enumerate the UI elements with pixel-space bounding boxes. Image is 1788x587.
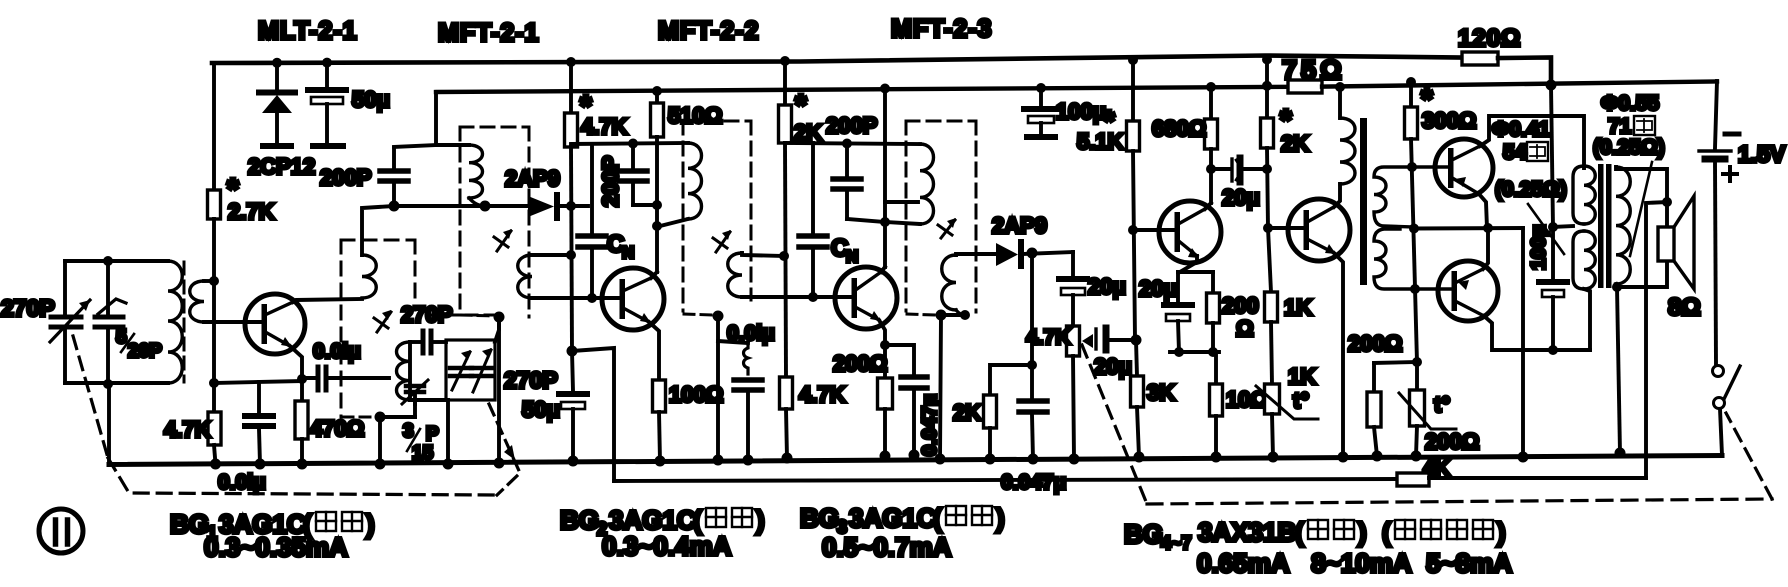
thermistor 200Ω t° [1415, 362, 1419, 390]
resistor 300Ω [1409, 82, 1413, 107]
dashed osc enclosure left [340, 240, 343, 417]
svg-text:(0.25Ω): (0.25Ω) [1495, 178, 1567, 201]
svg-text:MFT-2-2: MFT-2-2 [658, 17, 759, 45]
node secondary bottom [1612, 282, 1622, 292]
node diode out on 4.7K line [566, 201, 576, 211]
inductor output primary winding 2 [1573, 231, 1584, 289]
dashed osc to trimmer link [428, 314, 497, 317]
svg-text:20μ: 20μ [1094, 354, 1132, 379]
node 200Ω bottom [1208, 347, 1218, 357]
svg-text:BG: BG [1124, 519, 1163, 549]
dashed gang link from tuning capacitor [73, 336, 108, 458]
node secondary-2 top on bias line [779, 251, 789, 261]
node 200P IF2 top [628, 139, 638, 149]
capacitor 200P (IF3 tank) [845, 143, 849, 176]
inductor output secondary [1616, 167, 1630, 284]
wire IF2 supply wire [571, 143, 688, 144]
box MFT-2-2 dashed [683, 120, 751, 123]
svg-text:2.7K: 2.7K [228, 199, 275, 224]
node rail dot thermistor 1K [1268, 452, 1279, 463]
resistor 2K (BG5 bias) [1261, 118, 1274, 148]
svg-text:N: N [846, 247, 858, 266]
wire output primary bottom to BG7 collector line [1584, 289, 1590, 350]
wire branch to 0.01μ [718, 341, 748, 343]
diode 2CP12 [275, 63, 279, 90]
resistor 100Ω [653, 380, 666, 412]
wire tank bottom to ground rail [107, 384, 111, 464]
resistor R 2.7K [208, 190, 221, 219]
node tank bottom dot [103, 379, 113, 389]
svg-text:0.3~0.4mA: 0.3~0.4mA [602, 531, 732, 561]
resistor 4.7K (AGC series) [1067, 326, 1080, 356]
dashed BG4~7 block bottom [1147, 499, 1772, 504]
wire center tap to output primary [1553, 226, 1573, 227]
node rail dot 0.01μ [743, 455, 754, 466]
svg-text:200: 200 [1222, 293, 1259, 318]
inductor output primary winding 1 [1573, 166, 1584, 224]
wire AGC node to feedback drop [572, 348, 614, 481]
capacitor 20μ (BG4 bypass) [1176, 272, 1180, 302]
svg-text:200Ω: 200Ω [1348, 331, 1402, 356]
capacitor 50μ (top) [325, 63, 329, 87]
node rail dot 2K [985, 454, 996, 465]
wire feedback line 4K [614, 479, 1397, 481]
wire secondary top to speaker [1616, 167, 1667, 228]
wire BG2 emitter down [649, 322, 659, 380]
svg-text:1K: 1K [1284, 295, 1312, 320]
dashed gang diagonal to trimmer [489, 404, 520, 495]
resistor R 4.7K (BG1) [212, 383, 216, 412]
svg-text:BG: BG [800, 503, 839, 533]
svg-text:3AX31B: 3AX31B [1198, 517, 1296, 547]
wire emitter bus [1414, 226, 1523, 230]
wire osc tank ground x=448 [446, 400, 450, 464]
svg-text:470Ω: 470Ω [310, 416, 364, 441]
wire second rail feed to MFT-2-1 primary [436, 92, 469, 145]
node top rail dot 2CP12 [272, 58, 282, 68]
svg-text:3: 3 [403, 421, 414, 442]
inductor MFT-2-3 primary [920, 144, 934, 224]
wire BG7 emitter up to bus [1483, 228, 1488, 269]
node rail dot 50μ AGC [568, 456, 579, 467]
node rail dot emitter bus [1518, 452, 1529, 463]
wire MFT-2-3 rail feed [883, 88, 887, 267]
resistor 3K [1136, 340, 1137, 376]
inductor osc coil main [408, 342, 412, 400]
svg-text:Φ0.41: Φ0.41 [1492, 118, 1550, 141]
resistor 200Ω (BG4) [1211, 272, 1215, 293]
svg-text:0.3~0.35mA: 0.3~0.35mA [204, 532, 348, 562]
capacitor CN (2) [811, 143, 815, 233]
wire secondary-3 bottom link [941, 313, 965, 317]
wire BG5 base [1268, 226, 1303, 230]
wire base line down to 1K [1268, 228, 1271, 292]
wire BG5 base feed line [1265, 59, 1269, 118]
svg-text:MFT-2-3: MFT-2-3 [891, 15, 992, 43]
svg-text:200Ω: 200Ω [1425, 429, 1479, 454]
wire emitter resistor bus [1170, 350, 1219, 354]
node padder ground node [375, 412, 386, 423]
node junction base coil top [209, 276, 219, 286]
wire BG4 emitter bus [1178, 270, 1213, 274]
svg-text:t°: t° [1434, 392, 1450, 417]
dashed BG1 block boundary bottom [108, 458, 497, 495]
wire secondary ground drop [1617, 287, 1620, 453]
wire box to ground drop node [495, 317, 499, 342]
resistor 1K (BG5 bias low) [1265, 292, 1278, 322]
capacitor 0.047μ (BG3 emitter) [885, 345, 914, 374]
resistor 120Ω in top rail [1462, 52, 1498, 65]
wire 5.1K line down [1133, 151, 1135, 340]
capacitor padder 3/15P [413, 400, 417, 404]
inductor MFT-2-1 secondary [518, 255, 532, 298]
inductor MFT-2-2 primary [688, 143, 702, 219]
capacitor 200P (IF2 tank) [631, 143, 635, 168]
resistor 2K (volume/AGC) [984, 395, 997, 428]
capacitor 270P (osc tank) [421, 331, 426, 353]
node 20μ to base line [1262, 164, 1272, 174]
svg-text:(: ( [1295, 517, 1304, 547]
hanzi 橙点 (BG3) [946, 506, 992, 525]
svg-text:(: ( [933, 503, 942, 533]
hanzi 绿点 (BG1) [316, 512, 362, 531]
node rail dot 200Ω bias [1372, 451, 1383, 462]
svg-text:680Ω: 680Ω [1152, 116, 1206, 141]
inductor driver secondary winding 2 [1374, 229, 1451, 289]
svg-text:510Ω: 510Ω [668, 103, 722, 128]
node rail dot MFT-2-3 [935, 454, 946, 465]
transistor BG7 [1438, 261, 1498, 321]
wire secondary-2 bottom to BG3 base [742, 295, 850, 299]
resistor 2K (IF3 feed) [783, 61, 787, 105]
svg-text:0.65mA 8~10mA 5~8mA: 0.65mA 8~10mA 5~8mA [1197, 548, 1512, 578]
svg-text:50μ: 50μ [352, 87, 390, 112]
node 20μ bottom [1174, 347, 1184, 357]
capacitor 0.01μ (squiggle lead) [744, 343, 749, 374]
svg-text:Ω: Ω [1236, 316, 1254, 341]
wire 200P bottom to collector node [633, 203, 657, 207]
node rail dot 4.7K AGC [1069, 454, 1080, 465]
node CN1 bottom [587, 293, 597, 303]
node speaker top [1662, 197, 1672, 207]
capacitor det filter [1019, 398, 1047, 404]
svg-text:3AG1C: 3AG1C [849, 503, 936, 533]
label plus [1723, 172, 1737, 176]
node BG4 collector / coupling [1206, 164, 1216, 174]
symbol adjust arrow (osc) [377, 312, 391, 332]
core output transformer [1598, 164, 1604, 288]
wire 200P bottom to collector node [847, 219, 885, 222]
wire to mixer diode [485, 204, 528, 208]
svg-text:4.7K: 4.7K [164, 417, 211, 442]
inductor antenna coil primary [168, 261, 182, 383]
node rail dot 10Ω [1211, 452, 1222, 463]
node bias lower junction [1412, 357, 1422, 367]
wire BG1 emitter down [290, 346, 302, 378]
label minus [1725, 132, 1739, 137]
svg-text:15: 15 [412, 443, 434, 464]
svg-text:): ) [366, 509, 375, 539]
node MFT-2-3 ground wire top [936, 310, 947, 321]
hanzi 四只相同 [1395, 520, 1493, 539]
node CN2 bottom [808, 292, 818, 302]
svg-text:1.5V: 1.5V [1738, 141, 1786, 167]
svg-text:N: N [622, 243, 634, 262]
wire emitter bus to left [214, 381, 302, 383]
svg-text:50μ: 50μ [522, 397, 560, 422]
wire 2K line down [785, 143, 786, 377]
node emitter bus BG6/BG7 [1483, 223, 1493, 233]
node bias at emitter bus [1409, 224, 1419, 234]
svg-text:(: ( [1382, 517, 1391, 547]
wire secondary-3 top to detector [956, 254, 996, 255]
node rail dot MFT-2-2 [713, 455, 724, 466]
wire MFT-2-3 box ground drop [940, 315, 941, 459]
svg-text:4.7K: 4.7K [581, 114, 628, 139]
svg-text:300Ω: 300Ω [1422, 108, 1476, 133]
capacitor 100μ (output) [1551, 227, 1555, 279]
wire secondary-2 top to bias line [742, 253, 784, 256]
dashed osc enclosure top [341, 239, 415, 242]
svg-text:): ) [1497, 517, 1506, 547]
wire BG7 collector down to primary bottom [1484, 316, 1590, 350]
capacitor emitter bypass (BG1) [257, 382, 261, 413]
node rail dot BG5 emitter [1338, 452, 1349, 463]
svg-text:4.7K: 4.7K [1026, 326, 1070, 349]
svg-text:8Ω: 8Ω [1668, 294, 1701, 321]
resistor 75Ω in second rail [1288, 80, 1322, 93]
wire BG2 collector up [651, 272, 657, 278]
svg-text:2CP12: 2CP12 [248, 154, 315, 179]
wire branch to 2K [990, 365, 1032, 395]
capacitor 100μ (rail filter) [1039, 88, 1043, 106]
svg-text:BG: BG [560, 505, 599, 535]
wire left column x=214 top rail to base node [212, 63, 216, 190]
capacitor 20μ (det series) [1071, 252, 1075, 276]
svg-text:100μ: 100μ [1056, 99, 1106, 124]
wire second rail right portion to battery corner [1322, 82, 1717, 87]
diode mixer (2AP9 #1) [528, 196, 554, 217]
box trimmer 270P enclosure [446, 340, 495, 400]
node rail dot 3K [1134, 452, 1145, 463]
wire top rail right end to second rail [1498, 58, 1551, 86]
capacitor CN (1) [590, 144, 594, 233]
node bias at BG7 base line [1410, 284, 1420, 294]
capacitor trimmer b inside box [471, 366, 493, 371]
wire IF3 supply wire [785, 143, 920, 144]
symbol adjust arrow (MFT-2-1) [497, 231, 511, 251]
node tank top dot [103, 256, 113, 266]
inductor MFT-2-2 secondary [728, 253, 742, 297]
capacitor 50μ (AGC line) [567, 346, 578, 357]
svg-text:*: * [795, 89, 807, 122]
node center tap node [1548, 222, 1558, 232]
wire osc node to diode line [394, 204, 485, 208]
core driver transformer [1360, 118, 1367, 285]
wire secondary bottom [1616, 261, 1667, 287]
svg-text:1K: 1K [1288, 364, 1316, 389]
node collector net b [652, 221, 662, 231]
svg-text:20μ: 20μ [1222, 185, 1260, 210]
dashed BG4~7 block right [1726, 413, 1772, 499]
svg-text:20μ: 20μ [1139, 276, 1177, 301]
svg-text:200P: 200P [598, 156, 623, 207]
transistor BG4 [1159, 201, 1221, 263]
wire BG3 collector up [881, 267, 885, 272]
wire center tap feed from second rail [1551, 85, 1553, 227]
resistor 4K [1397, 473, 1429, 486]
pointer Φ0.55 to secondary [1630, 162, 1652, 256]
symbol adjust arrow (MFT-2-3) [941, 220, 955, 238]
inductor driver transformer primary [1338, 87, 1342, 118]
wire 4.7K line down through junctions [571, 147, 572, 351]
node rail dot 200Ω BG3 [880, 451, 891, 462]
wire bias line down [1411, 139, 1417, 362]
resistor 4.7K (BG3 bias lower) [780, 377, 793, 409]
svg-text:54: 54 [1503, 141, 1527, 164]
svg-text:71: 71 [1608, 115, 1632, 138]
svg-text:): ) [996, 503, 1005, 533]
node AF coupling in [1131, 335, 1142, 346]
wire primary-3 bottom to node [885, 222, 920, 224]
resistor 200Ω (bias) [1372, 363, 1376, 392]
svg-text:5.1K: 5.1K [1077, 129, 1124, 154]
pointer (0.25Ω) to emitter bus [1528, 204, 1564, 254]
svg-text:0.047μ: 0.047μ [1001, 471, 1066, 494]
wire secondary-3 bottom curve [956, 310, 965, 315]
wire second supply rail [436, 87, 1288, 92]
svg-text:120Ω: 120Ω [1458, 25, 1521, 52]
dashed osc enclosure right [414, 240, 417, 310]
node emitter junction [297, 374, 307, 384]
svg-text:4.7K: 4.7K [799, 382, 846, 407]
wire MFT-2-2 box ground drop [716, 316, 720, 460]
node junction emitter bus left [209, 378, 219, 388]
svg-text:0.0lμ: 0.0lμ [218, 471, 266, 494]
svg-text:): ) [1358, 517, 1367, 547]
node rail dot osc box [494, 458, 505, 469]
svg-text:MFT-2-1: MFT-2-1 [438, 19, 539, 47]
resistor 200Ω (BG3 emitter) [883, 345, 887, 378]
capacitor variable 270P (tuning gang a) [63, 261, 67, 314]
inductor MFT-2-1 primary [469, 145, 483, 198]
svg-text:270P: 270P [1, 295, 55, 321]
node BG4 base [1128, 225, 1138, 235]
svg-text:2AP9: 2AP9 [992, 213, 1047, 238]
svg-text:4~7: 4~7 [1161, 533, 1192, 553]
node bias at BG6 base line [1407, 162, 1417, 172]
wire bottom ground rail [109, 456, 1722, 465]
inductor antenna coil secondary [190, 281, 204, 322]
wire BG4 collector up [1205, 203, 1211, 209]
svg-text:100Ω: 100Ω [669, 382, 723, 407]
node rail dot 470Ω [297, 459, 308, 470]
wire BG1 collector to osc feedback coil [293, 299, 362, 302]
node MFT-2-1 secondary top [566, 250, 576, 260]
svg-text:4K: 4K [1423, 457, 1450, 480]
svg-text:75Ω: 75Ω [1282, 55, 1346, 85]
wire padder node to rail [378, 417, 382, 464]
svg-text:3K: 3K [1147, 380, 1175, 405]
resistor 510Ω [655, 91, 659, 103]
svg-text:20μ: 20μ [1088, 274, 1126, 299]
wire emitter bus to ground [1521, 228, 1525, 457]
wire 200P corner to MFT-2-1 primary top [394, 145, 436, 147]
core antenna rod (dashed) [183, 262, 186, 382]
wire secondary top to bias node [204, 279, 214, 283]
transistor BG3 [835, 267, 897, 329]
transistor BG2 [602, 268, 664, 330]
node rail dot det cap [1028, 454, 1039, 465]
box MFT-2-1 dashed [460, 126, 529, 129]
wire BG6 emitter down [1479, 194, 1487, 228]
svg-text:0.0lμ: 0.0lμ [313, 340, 361, 363]
svg-text:): ) [756, 505, 765, 535]
svg-text:Φ0.55: Φ0.55 [1601, 92, 1659, 115]
wire 2.7K to junction and down [212, 219, 216, 383]
wire BG6 collector to output primary top [1480, 116, 1584, 168]
node MFT-2-2 ground wire top [713, 311, 724, 322]
wire secondary top to 4.7K line [532, 253, 571, 257]
symbol adjust arrow (MFT-2-2) [716, 232, 730, 252]
svg-text:200P: 200P [320, 165, 371, 190]
inductor MFT-2-3 secondary [942, 255, 956, 310]
hanzi 灰点 (BG2) [706, 508, 752, 527]
svg-text:20P: 20P [128, 341, 162, 362]
hanzi 灰点 (BG4) [1308, 520, 1354, 539]
thermistor 1K t° [1265, 384, 1280, 414]
wire input tank bottom [65, 381, 168, 385]
wire osc coil bottom [410, 398, 446, 402]
wire secondary bottom to BG2 base [532, 296, 619, 300]
resistor 5.1K (BG4 base feed) [1131, 60, 1135, 121]
node rail dot padder [375, 459, 386, 470]
inductor osc feedback winding [362, 206, 394, 255]
inductor driver secondary winding 1 [1374, 167, 1448, 227]
symbol page number 11 [39, 509, 83, 553]
diode detector 2AP9 [996, 243, 1018, 266]
svg-text:2K: 2K [953, 400, 981, 425]
node detector out [1027, 248, 1038, 259]
wire feedback tap [1646, 202, 1667, 478]
node 200P IF3 top [842, 139, 852, 149]
wire BG3 emitter down [879, 320, 885, 345]
wire BG4 base [1133, 228, 1174, 232]
svg-text:P: P [426, 424, 439, 445]
switch power [1713, 366, 1724, 377]
node rail dot 100Ω [655, 456, 666, 467]
transistor BG1 [245, 294, 305, 354]
transistor BG5 [1288, 199, 1350, 261]
node secondary-3 bottom [960, 310, 970, 320]
node osc junction [389, 201, 400, 212]
svg-text:0.0lμ: 0.0lμ [727, 322, 775, 345]
wire BG5 collector up [1334, 184, 1340, 207]
wire BG5 emitter to rail [1334, 253, 1343, 457]
svg-text:2AP9: 2AP9 [505, 166, 560, 191]
dashed osc enclosure bottom to padder node [343, 416, 372, 419]
node AGC branch [1027, 360, 1037, 370]
speaker [1658, 227, 1674, 261]
wire secondary bottom to BG1 base [204, 320, 262, 324]
box MFT-2-3 dashed [906, 120, 976, 123]
capacitor trimmer 5/20P [106, 261, 110, 314]
wire BG4 emitter [1180, 256, 1197, 272]
node 100μ join [1548, 345, 1558, 355]
node top rail dot 50μ [322, 58, 332, 68]
resistor 470Ω [300, 379, 304, 401]
capacitor 0.01μ coupling to osc [302, 376, 315, 380]
